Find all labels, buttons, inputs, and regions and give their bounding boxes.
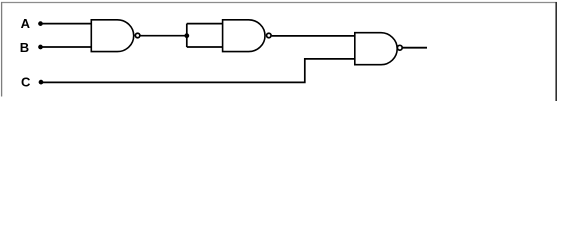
frame left border (1, 2, 3, 97)
svg-text:A: A (21, 16, 31, 31)
terminal dot A (38, 21, 43, 26)
nand gate U1 (91, 20, 140, 52)
wire junction to U2 pin 2 (187, 46, 223, 48)
nand gate U3 (355, 33, 402, 65)
wire C run (41, 59, 355, 83)
svg-text:C: C (21, 74, 31, 89)
wire U3 output (403, 47, 427, 49)
frame top border (1, 2, 557, 4)
wire junction to U2 pin 1 (187, 23, 223, 25)
nand gate U2 (223, 20, 271, 52)
frame right border (555, 2, 557, 101)
terminal dot B (38, 45, 43, 50)
wire U2 output to U3 pin 1 (272, 35, 355, 37)
wire B to U1 pin 2 (41, 46, 92, 48)
junction node (184, 33, 189, 38)
wire U1 output to junction (140, 35, 187, 37)
terminal dot C (39, 80, 44, 85)
wire A to U1 pin 1 (41, 23, 92, 25)
wire junction vertical branch (186, 24, 188, 47)
svg-text:B: B (20, 40, 29, 55)
